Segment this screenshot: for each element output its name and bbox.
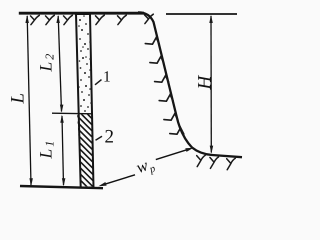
upper ground line (left) [19, 12, 144, 15]
hatch y3 [64, 15, 73, 24]
svg-text:2: 2 [105, 127, 115, 148]
hatch y4 [96, 15, 105, 24]
pile column outline [76, 14, 94, 188]
label 1 with leader [95, 80, 102, 85]
stipple dots in zone 1 [78, 15, 92, 112]
slope face curve [138, 12, 242, 157]
hatch y5 [118, 15, 127, 24]
dimension line L1 [62, 116, 64, 185]
svg-text:L: L [8, 93, 29, 105]
svg-text:1: 1 [103, 69, 111, 86]
lower ground line (left, pile base) [20, 186, 103, 188]
divider line between zone 1 and zone 2 [52, 112, 93, 115]
ground hatch marks under upper-left line [31, 14, 154, 25]
svg-text:H: H [195, 75, 216, 91]
hatch y1 [31, 15, 40, 24]
dimension line L [27, 16, 31, 185]
hatch marks under lower-right ground line [197, 155, 236, 170]
hatch y6 [145, 14, 154, 23]
dimension line L2 [58, 16, 61, 112]
upper ground line (right) [166, 13, 237, 15]
slope hatch ticks [145, 38, 184, 135]
hatch y2 [46, 15, 55, 24]
label 2 with leader [96, 136, 103, 140]
hatching in zone 2 (anchored part) [0, 96, 176, 196]
w_p leader with arrows [105, 175, 136, 185]
dimension line H [210, 16, 212, 153]
